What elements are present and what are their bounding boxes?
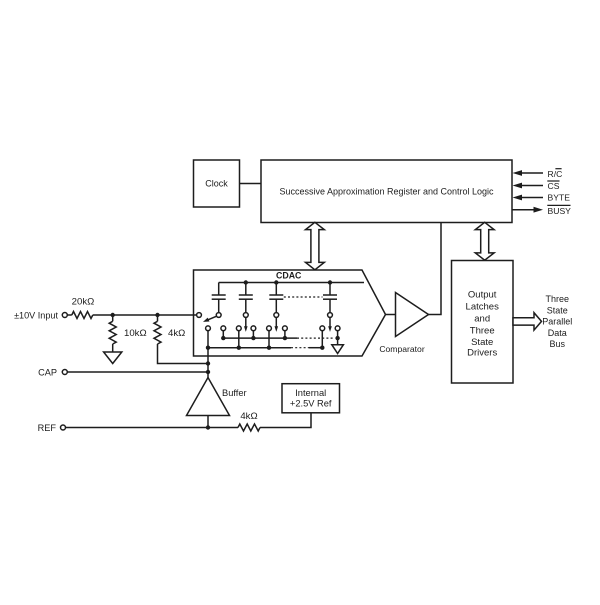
ground bus wire <box>223 337 297 339</box>
svg-text:Successive Approximation Regis: Successive Approximation Register and Co… <box>279 186 494 196</box>
node 2a <box>237 346 241 350</box>
capacitor C2 <box>239 283 253 313</box>
Clock box <box>194 160 240 207</box>
switch pole S2 <box>243 313 248 318</box>
CDAC top plate bus wire <box>219 282 364 284</box>
throw contact 2a <box>236 326 241 331</box>
throw contact 2b <box>251 326 256 331</box>
svg-text:State: State <box>471 337 493 348</box>
throw contact 1b <box>221 326 226 331</box>
switch wiper arrow S3 <box>275 318 279 332</box>
node top of C2 <box>244 280 248 284</box>
BYTE input arrow <box>513 195 544 201</box>
wire CAP to node <box>67 371 208 373</box>
node 3a <box>267 346 271 350</box>
capacitor C1 <box>212 283 226 313</box>
Three State Parallel Data Bus label <box>542 294 572 349</box>
CS label <box>547 181 559 191</box>
node 1b <box>221 336 225 340</box>
svg-text:R/C: R/C <box>548 169 563 179</box>
throw contact 3a <box>267 326 272 331</box>
throw contact 4a <box>320 326 325 331</box>
node CAP junction <box>206 370 210 374</box>
wire R4 to ref box <box>260 413 311 428</box>
comparator U2 <box>396 293 429 337</box>
cap bus wire <box>208 347 291 349</box>
buffer amp U4 <box>187 378 230 416</box>
svg-text:Internal: Internal <box>295 388 326 398</box>
wire CDAC tip to comparator <box>386 314 396 316</box>
ground bus dashed segment <box>297 337 334 339</box>
wire buffer to REF line <box>207 416 209 428</box>
svg-text:BUSY: BUSY <box>548 206 572 216</box>
node top of C3 <box>274 280 278 284</box>
svg-text:20kΩ: 20kΩ <box>72 297 95 308</box>
SAR and Control Logic box U1 <box>261 160 512 223</box>
wire contact 3a to cap bus <box>268 331 270 348</box>
node R3 junction <box>206 361 210 365</box>
input contact node <box>197 313 202 318</box>
wire contact 3b to ground bus <box>284 331 286 338</box>
Output Latches box U3 <box>452 261 514 384</box>
capacitor C3 <box>269 283 283 313</box>
switch pole S3 <box>274 313 279 318</box>
svg-text:Latches: Latches <box>466 302 500 313</box>
svg-text:Clock: Clock <box>205 179 228 189</box>
wire comparator output to SAR <box>429 223 442 315</box>
svg-text:4kΩ: 4kΩ <box>240 411 257 422</box>
svg-text:Output: Output <box>468 290 497 301</box>
svg-text:CDAC: CDAC <box>276 270 302 280</box>
BUSY label <box>547 205 571 216</box>
svg-text:REF: REF <box>38 423 57 433</box>
node 2b <box>251 336 255 340</box>
cap bus end segment <box>309 347 322 349</box>
wire node B to R3 <box>157 315 159 321</box>
svg-text:CAP: CAP <box>38 367 57 377</box>
wire contact 4b to ground <box>337 331 339 345</box>
svg-text:Three: Three <box>546 294 570 304</box>
resistor R1 20k <box>72 312 93 319</box>
resistor R2 10k <box>109 321 116 344</box>
throw contact 4b <box>335 326 340 331</box>
switch wiper arrow S4 <box>328 318 332 332</box>
bidirectional bus arrow SAR-CDAC <box>306 222 325 269</box>
wire cap bus down to buffer <box>207 331 209 378</box>
three state bus arrow <box>513 313 542 330</box>
Internal 2.5V Ref box U5 <box>282 384 340 413</box>
bidirectional bus arrow SAR-Output Latches <box>475 222 494 260</box>
node 4b <box>335 336 339 340</box>
wire contact 4a to cap bus <box>321 331 323 348</box>
wire Clock to SAR <box>240 183 262 185</box>
ground G1 <box>104 352 122 364</box>
switch wiper arrow S1 <box>203 316 216 322</box>
CS input arrow <box>513 183 544 189</box>
node 4a <box>320 346 324 350</box>
resistor R4 4k <box>238 424 260 431</box>
svg-text:Drivers: Drivers <box>467 348 497 359</box>
node top of C4 <box>328 280 332 284</box>
wire contact 1b to ground bus <box>222 331 224 338</box>
wire contact 2a to cap bus <box>238 331 240 348</box>
svg-text:State: State <box>547 305 568 315</box>
svg-text:BYTE: BYTE <box>548 193 571 203</box>
REF terminal <box>61 425 66 430</box>
CDAC block outline <box>194 270 386 356</box>
wire node A to R2 <box>112 315 114 321</box>
wire REF to R4 <box>66 427 239 429</box>
node 3b <box>283 336 287 340</box>
wire R2 to ground <box>112 344 114 352</box>
svg-text:Three: Three <box>470 326 495 337</box>
switch pole S1 <box>216 313 221 318</box>
svg-text:+2.5V Ref: +2.5V Ref <box>290 398 332 408</box>
wire contact 2b to ground bus <box>252 331 254 338</box>
resistor R3 4k <box>154 321 161 344</box>
R/C input arrow <box>513 170 544 176</box>
svg-text:±10V Input: ±10V Input <box>14 310 58 320</box>
Output Latches label <box>466 290 500 359</box>
switch wiper arrow S2 <box>244 318 248 332</box>
input terminal <box>62 313 67 318</box>
throw contact 3b <box>283 326 288 331</box>
node B <box>155 313 159 317</box>
svg-text:Data: Data <box>548 328 567 338</box>
svg-text:CS: CS <box>548 181 560 191</box>
R/C label <box>548 169 563 179</box>
wire R3 to cap node <box>158 344 209 364</box>
node REF junction <box>206 425 210 429</box>
svg-text:and: and <box>474 314 490 325</box>
svg-text:Comparator: Comparator <box>379 344 425 354</box>
svg-text:4kΩ: 4kΩ <box>168 328 185 339</box>
node A <box>111 313 115 317</box>
switch pole S4 <box>328 313 333 318</box>
svg-text:10kΩ: 10kΩ <box>124 328 147 339</box>
svg-text:Buffer: Buffer <box>222 388 247 398</box>
svg-text:Parallel: Parallel <box>542 317 572 327</box>
svg-text:Bus: Bus <box>550 339 566 349</box>
Internal Ref label <box>290 388 332 408</box>
cap bus dashed segment <box>291 347 309 349</box>
dashed continuation capacitors <box>284 296 323 298</box>
BUSY output arrow <box>513 207 544 213</box>
node cap bus <box>206 346 210 350</box>
wire R1 to CDAC input <box>93 314 197 316</box>
ground G2 <box>332 345 344 354</box>
CAP terminal <box>62 370 67 375</box>
wire terminal to R1 <box>67 314 72 316</box>
throw contact 1a <box>206 326 211 331</box>
capacitor C4 <box>323 283 337 313</box>
